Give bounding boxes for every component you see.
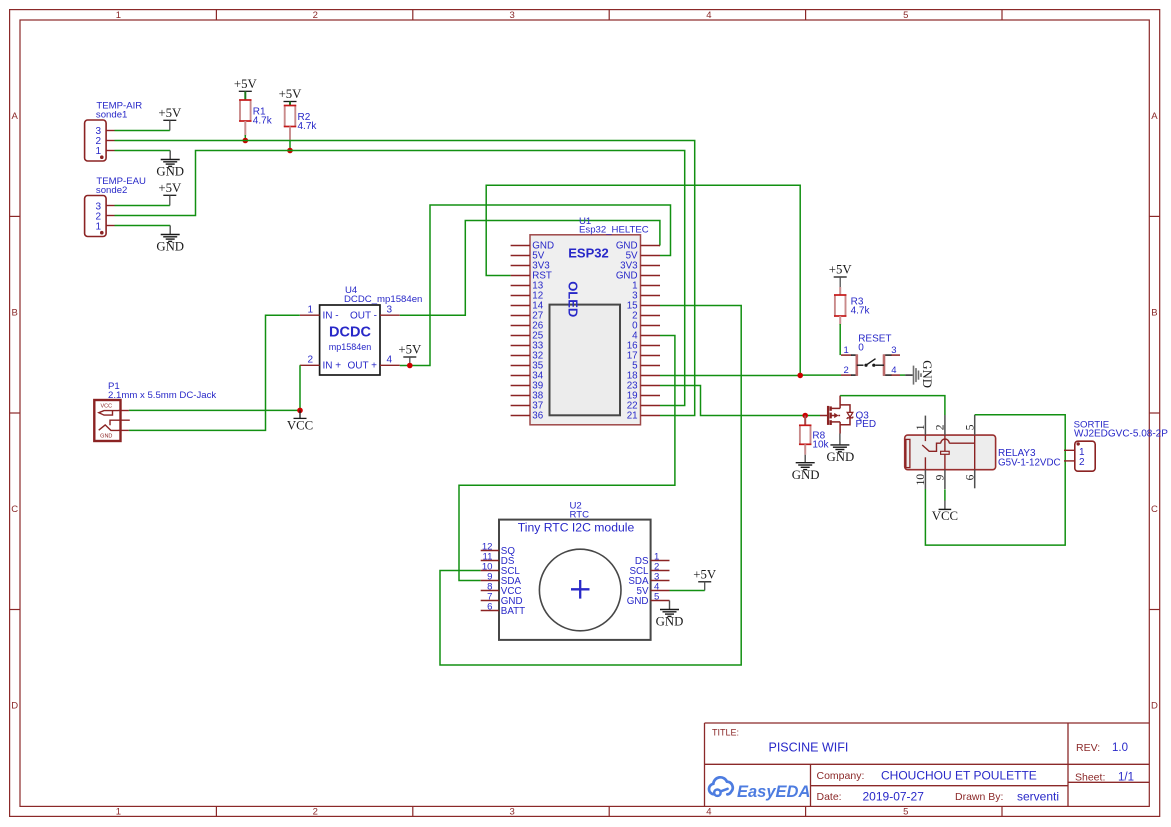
- connector TEMP-AIR sonde1: [85, 101, 143, 161]
- wire RESET pin4 to GND: [900, 374, 905, 376]
- source vertical: [839, 422, 841, 434]
- pin2 line: [944, 415, 946, 435]
- wire R2 to sonde2 data: [289, 140, 291, 151]
- wire relay pin9 to VCC: [944, 489, 946, 500]
- svg-text:1: 1: [915, 424, 927, 430]
- svg-text:WJ2EDGVC-5.08-2P: WJ2EDGVC-5.08-2P: [1074, 428, 1168, 439]
- wire ESP32 pin23 to Q3 gate: [660, 386, 805, 416]
- svg-text:serventi: serventi: [1017, 789, 1059, 803]
- channel bar segments: [830, 406, 832, 410]
- svg-text:5: 5: [965, 424, 977, 430]
- pin GND stub: [118, 429, 129, 431]
- contact drawing: [924, 435, 926, 441]
- svg-text:2: 2: [313, 807, 318, 818]
- wire P1 sleeve to DCDC IN-: [129, 315, 300, 430]
- svg-text:4.7k: 4.7k: [298, 121, 318, 132]
- svg-text:PED: PED: [856, 419, 877, 430]
- svg-text:A: A: [12, 111, 19, 122]
- RTC module U2 Tiny RTC I2C module: [499, 501, 651, 640]
- resistor R8 10k: [799, 416, 830, 455]
- svg-text:2: 2: [313, 10, 318, 21]
- svg-text:+5V: +5V: [279, 87, 303, 101]
- svg-text:+5V: +5V: [158, 106, 182, 120]
- svg-text:TITLE:: TITLE:: [712, 728, 739, 738]
- relay RELAY3 G5V-1-12VDC: [905, 415, 1061, 489]
- wire R3 to RESET pin1: [839, 324, 841, 355]
- svg-text:2: 2: [1079, 457, 1085, 468]
- +5V for sonde2 pin 3: [158, 181, 182, 206]
- svg-text:REV:: REV:: [1076, 742, 1100, 754]
- svg-text:+5V: +5V: [398, 343, 422, 357]
- svg-text:GND: GND: [920, 360, 934, 388]
- svg-text:B: B: [12, 308, 18, 319]
- wire DCDC OUT- GND net to ESP32: [400, 221, 660, 316]
- svg-text:1: 1: [116, 807, 121, 818]
- resistor R1 4.7k: [239, 91, 273, 135]
- connector P1 DC-Jack: [94, 381, 216, 441]
- wire P1 tip to VCC node / DCDC IN+: [129, 365, 300, 410]
- svg-text:A: A: [1151, 111, 1158, 122]
- svg-text:4.7k: 4.7k: [253, 116, 273, 127]
- svg-text:1: 1: [95, 222, 101, 233]
- svg-text:6: 6: [965, 474, 977, 480]
- body diode branch: [840, 405, 850, 425]
- resistor R2 4.7k: [284, 102, 318, 141]
- svg-text:GND: GND: [656, 614, 684, 628]
- connector TEMP-EAU sonde2: [85, 176, 146, 236]
- +5V at RTC 5V pin: [693, 567, 717, 590]
- svg-text:sonde1: sonde1: [96, 109, 127, 120]
- svg-text:VCC: VCC: [287, 418, 313, 432]
- svg-text:VCC: VCC: [100, 403, 112, 409]
- middle pin stub: [110, 420, 130, 425]
- svg-text:10k: 10k: [812, 440, 829, 451]
- ground Q3 source: [827, 434, 855, 465]
- svg-text:1: 1: [95, 146, 101, 157]
- svg-text:1: 1: [1079, 447, 1085, 458]
- svg-text:C: C: [1151, 504, 1158, 515]
- svg-text:PISCINE WIFI: PISCINE WIFI: [769, 741, 849, 755]
- pin9 line: [944, 470, 946, 489]
- svg-text:GND: GND: [156, 164, 184, 178]
- svg-text:OUT +: OUT +: [347, 361, 377, 372]
- gate lead and plate: [820, 415, 828, 417]
- wire sonde1 pin1 to GND: [115, 150, 171, 152]
- RTC left pins: [481, 541, 525, 617]
- ESP32 right pins: [616, 241, 660, 422]
- VCC at relay pin9: [932, 501, 958, 524]
- connector SORTIE WJ2EDGVC-5.08-2P: [1064, 420, 1168, 472]
- wire sonde1 pin3 to +5V: [115, 130, 170, 132]
- +5V for R1: [234, 77, 258, 92]
- node VCC junction: [297, 408, 303, 414]
- svg-text:1: 1: [307, 304, 313, 315]
- svg-text:4: 4: [706, 807, 711, 818]
- pushbutton RESET: [841, 334, 900, 377]
- wire relay pin5 loop to pin10: [925, 415, 1065, 545]
- EasyEDA logo: [709, 777, 810, 801]
- svg-text:5: 5: [654, 591, 659, 602]
- OLED display area: [550, 281, 621, 415]
- svg-text:Esp32_HELTEC: Esp32_HELTEC: [579, 225, 649, 236]
- pin 2: [300, 364, 320, 366]
- wire sonde2 pin1 to GND: [115, 225, 171, 227]
- ground sonde1: [156, 151, 184, 179]
- svg-text:1.0: 1.0: [1112, 742, 1128, 754]
- svg-text:+5V: +5V: [829, 263, 853, 277]
- node R2/sonde2 junction: [287, 148, 293, 154]
- pin 4 lead: [883, 374, 892, 376]
- contact posts: [855, 354, 858, 375]
- svg-text:mp1584en: mp1584en: [329, 342, 372, 352]
- svg-text:Drawn By:: Drawn By:: [955, 791, 1003, 803]
- svg-text:OLED: OLED: [565, 281, 580, 317]
- svg-text:36: 36: [532, 411, 543, 422]
- svg-text:+5V: +5V: [234, 77, 258, 91]
- svg-text:G5V-1-12VDC: G5V-1-12VDC: [998, 458, 1061, 469]
- pin 3: [380, 314, 400, 316]
- svg-text:1: 1: [116, 10, 121, 21]
- svg-text:B: B: [1151, 308, 1157, 319]
- svg-text:VCC: VCC: [932, 509, 958, 523]
- svg-text:10: 10: [915, 474, 927, 486]
- coil symbol on pin2/9 line: [944, 435, 946, 451]
- svg-text:D: D: [1151, 700, 1158, 711]
- svg-text:DCDC: DCDC: [329, 325, 371, 341]
- svg-text:GND: GND: [792, 468, 820, 482]
- pin5/6 line through box: [974, 435, 976, 470]
- svg-text:GND: GND: [827, 450, 855, 464]
- wire ESP32 pin15 to RTC SCL: [440, 306, 741, 666]
- pin1 line: [924, 416, 926, 436]
- ESP32 module U1 Esp32_HELTEC: [530, 216, 649, 425]
- wire ESP32 pin4 to RTC SDA: [459, 336, 675, 581]
- svg-text:1/1: 1/1: [1118, 771, 1134, 783]
- wire ESP32 RST to reset net: [486, 185, 800, 375]
- svg-text:2019-07-27: 2019-07-27: [863, 789, 925, 803]
- wire RESET pin2 to reset junction: [800, 374, 841, 376]
- transistor Q3 PED: [820, 396, 876, 434]
- svg-text:BATT: BATT: [501, 606, 525, 617]
- svg-text:OUT -: OUT -: [350, 311, 377, 322]
- svg-text:IN +: IN +: [323, 361, 342, 372]
- ground RTC GND pin: [656, 601, 684, 629]
- drain vertical from wire down to top stub: [839, 396, 841, 409]
- wire R1 to sonde1 data: [244, 135, 246, 141]
- ground sonde2: [156, 226, 184, 254]
- resistor R3 4.7k: [834, 287, 871, 325]
- svg-text:2.1mm x 5.5mm DC-Jack: 2.1mm x 5.5mm DC-Jack: [108, 390, 216, 401]
- pin6 line: [974, 470, 976, 489]
- +5V for R2: [279, 87, 303, 102]
- switch contact symbol: [99, 425, 118, 431]
- node reset junction: [797, 373, 803, 379]
- RTC right pins: [627, 551, 670, 607]
- svg-text:+5V: +5V: [158, 181, 182, 195]
- wire RTC 5V pin to +5V: [670, 590, 705, 592]
- wire sonde1 signal TEMP-AIR pin2 to ESP32 pin 21: [115, 141, 695, 416]
- ground R8: [792, 455, 820, 483]
- VCC symbol at P1: [287, 410, 313, 432]
- svg-text:Tiny RTC I2C module: Tiny RTC I2C module: [518, 521, 635, 535]
- pin10 line: [924, 470, 926, 489]
- wire sonde2 pin3 to +5V: [115, 205, 170, 207]
- pin 1 stub: [1064, 449, 1075, 451]
- svg-text:5: 5: [903, 10, 908, 21]
- node R1/sonde1 junction: [243, 138, 249, 144]
- contacts and lever: [857, 364, 864, 366]
- svg-text:6: 6: [487, 601, 492, 612]
- svg-text:+5V: +5V: [693, 567, 717, 581]
- svg-text:3: 3: [387, 304, 393, 315]
- pin 3 lead: [883, 354, 892, 356]
- drain/bulk/source stubs: [831, 407, 840, 409]
- svg-text:0: 0: [858, 343, 864, 354]
- wire DCDC OUT+ +5V net: [400, 205, 671, 366]
- wire sonde2 signal TEMP-EAU pin2 to ESP32 pin 22: [115, 151, 685, 406]
- svg-text:IN -: IN -: [323, 311, 339, 322]
- pin 1: [300, 314, 320, 316]
- svg-text:3: 3: [509, 807, 514, 818]
- svg-text:4: 4: [706, 10, 711, 21]
- svg-text:GND: GND: [627, 596, 649, 607]
- svg-text:3: 3: [509, 10, 514, 21]
- svg-text:9: 9: [935, 474, 947, 480]
- wire gate junction to Q3: [805, 415, 820, 417]
- svg-text:Company:: Company:: [817, 770, 865, 782]
- svg-text:D: D: [11, 700, 18, 711]
- pin 1 lead: [841, 354, 852, 356]
- svg-text:sonde2: sonde2: [96, 185, 127, 196]
- svg-text:GND: GND: [100, 434, 112, 440]
- svg-text:Date:: Date:: [817, 791, 842, 803]
- svg-text:CHOUCHOU ET POULETTE: CHOUCHOU ET POULETTE: [881, 768, 1037, 782]
- pin5 line: [974, 415, 976, 435]
- node gate junction: [802, 413, 808, 419]
- svg-text:C: C: [11, 504, 18, 515]
- svg-text:ESP32: ESP32: [568, 246, 608, 261]
- svg-text:2: 2: [935, 424, 947, 430]
- title block: [705, 723, 1150, 807]
- svg-text:4.7k: 4.7k: [851, 306, 871, 317]
- svg-text:2: 2: [307, 354, 313, 365]
- tip contact symbol: [99, 411, 118, 416]
- svg-text:DCDC_mp1584en: DCDC_mp1584en: [344, 294, 422, 305]
- node OUT+ junction: [407, 363, 413, 369]
- pin VCC stub: [118, 410, 129, 412]
- +5V for R3: [829, 263, 853, 288]
- wire Q3 drain to relay pin2: [840, 396, 945, 415]
- svg-text:21: 21: [627, 411, 638, 422]
- svg-text:GND: GND: [156, 239, 184, 253]
- pin 2 stub: [1064, 460, 1075, 462]
- svg-text:5: 5: [903, 807, 908, 818]
- svg-text:EasyEDA: EasyEDA: [737, 783, 810, 801]
- wire ESP32 pin18 to reset junction: [660, 375, 800, 377]
- +5V symbol at DCDC OUT+: [398, 343, 422, 366]
- coil core bar: [906, 439, 910, 467]
- +5V for sonde1 pin 3: [158, 106, 182, 131]
- svg-text:4: 4: [387, 354, 393, 365]
- svg-text:Sheet:: Sheet:: [1075, 772, 1105, 784]
- DCDC module U4 DCDC_mp1584en: [300, 285, 423, 375]
- pin 2 lead: [841, 374, 852, 376]
- ESP32 left pins: [511, 241, 554, 422]
- pin 4: [380, 364, 400, 366]
- ground at RESET (rotated): [905, 360, 934, 388]
